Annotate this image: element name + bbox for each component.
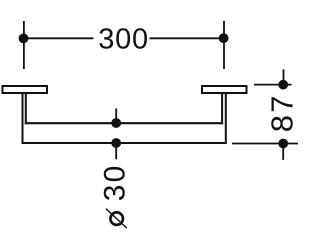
- svg-text:300: 300: [98, 24, 149, 56]
- svg-text:87: 87: [264, 93, 299, 132]
- svg-text:30: 30: [98, 164, 131, 202]
